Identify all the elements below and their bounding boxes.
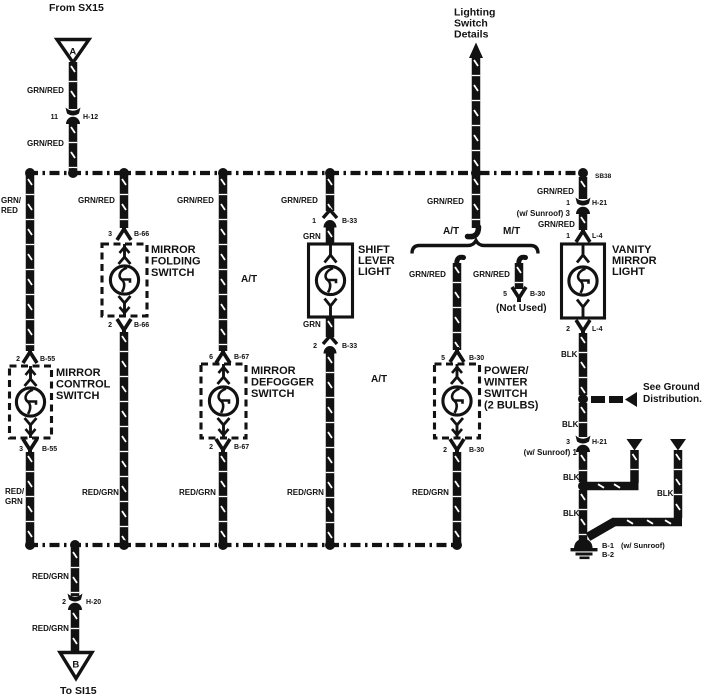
connector pin L-4 pin 2 (576, 320, 590, 335)
wire A to H-12 (69, 62, 78, 109)
label A/T label (443, 226, 459, 237)
label A/T w4 (371, 374, 387, 385)
svg-text:B-30: B-30 (469, 355, 484, 362)
label GRN/RED w6 upper (537, 187, 574, 196)
node bottom junction w1 (25, 540, 35, 550)
wire brace to power/winter switch (453, 263, 462, 350)
node bus junction w2 (119, 168, 129, 178)
svg-text:1: 1 (566, 233, 570, 240)
svg-text:RED: RED (1, 206, 18, 215)
wire bottom distribution bus (28, 543, 459, 547)
svg-text:GRN/RED: GRN/RED (27, 86, 64, 95)
switch illumination POWER/WINTER SWITCH B-30 (435, 364, 480, 438)
svg-text:B-55: B-55 (40, 356, 55, 363)
inline connector H-21 bottom (576, 436, 591, 453)
label pin 1 H-21 (566, 200, 570, 207)
svg-text:RED/GRN: RED/GRN (32, 624, 69, 633)
label pin 2 B-55 (16, 356, 20, 363)
connector pin B-67 pin 6 (216, 348, 230, 363)
svg-text:(w/ Sunroof) 3: (w/ Sunroof) 3 (517, 209, 571, 218)
label H-20 label (86, 599, 101, 606)
svg-text:RED/: RED/ (5, 487, 25, 496)
label pin 2 B-66 (108, 322, 112, 329)
label pin 11 (51, 114, 59, 121)
svg-text:(w/ Sunroof) 1: (w/ Sunroof) 1 (524, 448, 578, 457)
node bus junction A (68, 168, 78, 178)
svg-text:2: 2 (108, 322, 112, 329)
svg-text:GRN/RED: GRN/RED (537, 187, 574, 196)
label GRN/RED w5 (427, 197, 464, 206)
svg-text:Details: Details (454, 29, 489, 41)
svg-text:POWER/: POWER/ (484, 365, 529, 377)
label GRN/RED w1 (1, 196, 22, 215)
wire shift lever light to B-33 bottom (326, 317, 335, 337)
svg-text:RED/GRN: RED/GRN (82, 488, 119, 497)
label pin 2 L-4 (566, 326, 570, 333)
svg-text:SB38: SB38 (595, 173, 612, 180)
label B-1 B-2 (602, 541, 665, 559)
node bottom junction w3 (218, 540, 228, 550)
node ground distribution junction (578, 394, 588, 404)
svg-text:GRN: GRN (303, 232, 321, 241)
label pin 5 B-30 (441, 355, 445, 362)
svg-text:B-66: B-66 (134, 322, 149, 329)
svg-text:B-2: B-2 (602, 550, 614, 559)
switch illumination MIRROR FOLDING SWITCH B-66 (102, 244, 147, 316)
label RED/GRN w4 (287, 488, 324, 497)
svg-text:GRN/RED: GRN/RED (177, 196, 214, 205)
wire junction to H-21 bottom (579, 403, 588, 437)
wire bus to mirror folding switch (120, 175, 129, 228)
label GRN/RED 5a (409, 270, 446, 279)
svg-text:RED/GRN: RED/GRN (412, 488, 449, 497)
inline connector H-21 top (576, 198, 591, 215)
label RED/GRN 5a (412, 488, 449, 497)
label B-33 bottom label (342, 343, 357, 350)
node bus junction w3 (218, 168, 228, 178)
wire bus to B-33 (326, 175, 335, 211)
label pin 6 B-67 (209, 354, 213, 361)
svg-text:FOLDING: FOLDING (151, 256, 201, 268)
svg-text:1: 1 (312, 218, 316, 225)
svg-text:5: 5 (503, 291, 507, 298)
label B-30 bottom label (469, 447, 484, 454)
svg-text:2: 2 (443, 447, 447, 454)
svg-text:MIRROR: MIRROR (151, 244, 196, 256)
label M/T label (503, 226, 520, 237)
wire hook 5a top (457, 257, 464, 266)
switch illumination MIRROR DEFOGGER SWITCH B-67 (201, 364, 246, 438)
wire dashed arrow to ground distribution (591, 392, 637, 407)
svg-text:To SI15: To SI15 (60, 685, 97, 695)
svg-text:B-33: B-33 (342, 343, 357, 350)
arrow to lighting switch details (469, 43, 483, 59)
label B-33 top label (342, 218, 357, 225)
wire bus to A/T M/T brace (472, 175, 481, 228)
label BLK 4 (563, 509, 580, 518)
svg-text:6: 6 (209, 354, 213, 361)
svg-text:A/T: A/T (443, 226, 459, 237)
label pin 2 B-30 (443, 447, 447, 454)
label A/T w3 (241, 274, 257, 285)
label RED/GRN w3 (179, 488, 216, 497)
wire ground point 2 drop (674, 450, 683, 518)
node bottom junction w2 (119, 540, 129, 550)
svg-text:B-55: B-55 (42, 446, 57, 453)
label L-4 bottom label (592, 326, 603, 333)
svg-text:H-12: H-12 (83, 114, 98, 121)
label BLK 3 (563, 473, 580, 482)
label RED/GRN w1 (5, 487, 25, 506)
label GRN/RED w2 (78, 196, 115, 205)
inline connector B-33 top (323, 210, 337, 228)
svg-text:H-21: H-21 (592, 439, 607, 446)
wire junction to ground (579, 490, 588, 540)
label B-55 top (40, 356, 55, 363)
svg-text:H-21: H-21 (592, 200, 607, 207)
wire hook 5b top (519, 257, 526, 266)
svg-text:GRN/RED: GRN/RED (78, 196, 115, 205)
svg-text:2: 2 (313, 343, 317, 350)
svg-text:B-30: B-30 (530, 291, 545, 298)
svg-text:SWITCH: SWITCH (151, 267, 194, 279)
label pin 3 B-55 (19, 446, 23, 453)
label BLK 2 (562, 420, 579, 429)
label To SI15 (60, 685, 97, 695)
node bottom junction w4 (325, 540, 335, 550)
wire H-21 to branch junction (579, 451, 588, 482)
svg-text:11: 11 (51, 114, 59, 121)
label pin 1 B-33 (312, 218, 316, 225)
label B-30 top label (469, 355, 484, 362)
svg-text:GRN/RED: GRN/RED (281, 196, 318, 205)
svg-text:BLK: BLK (657, 489, 674, 498)
label From SX15 (49, 2, 104, 14)
wire bus to H-20 (71, 548, 80, 596)
svg-text:2: 2 (16, 356, 20, 363)
connector pin L-4 pin 1 (576, 227, 590, 242)
label pin 3 H-21 (566, 439, 570, 446)
label GRN w4 lower (303, 320, 321, 329)
node bus junction w4 (325, 168, 335, 178)
svg-text:5: 5 (441, 355, 445, 362)
svg-text:3: 3 (108, 231, 112, 238)
wire power/winter switch to bottom bus (453, 452, 462, 546)
label (Not Used) (496, 303, 547, 314)
label GRN/RED w6 lower (538, 220, 575, 229)
connector triangle B (60, 653, 92, 679)
label SHIFT LEVER LIGHT (358, 244, 395, 278)
svg-text:GRN/RED: GRN/RED (427, 197, 464, 206)
svg-text:B-30: B-30 (469, 447, 484, 454)
svg-text:LIGHT: LIGHT (612, 266, 645, 278)
label BLK 1 (561, 350, 578, 359)
wire brace to B-30 pin 5 (not used) (515, 263, 524, 289)
svg-text:2: 2 (209, 444, 213, 451)
node bus junction w1 (25, 168, 35, 178)
label H-21 top label (592, 200, 607, 207)
svg-text:B-67: B-67 (234, 354, 249, 361)
label B-67 top (234, 354, 249, 361)
label GRN/RED 5b (473, 270, 510, 279)
svg-text:1: 1 (566, 200, 570, 207)
label L-4 top label (592, 233, 603, 240)
node branch junction (578, 481, 588, 491)
svg-text:B-33: B-33 (342, 218, 357, 225)
brace A/T M/T split (412, 241, 538, 254)
connector pin B-55 pin 3 (23, 439, 37, 454)
svg-text:B-66: B-66 (134, 231, 149, 238)
connector pin B-55 pin 2 (23, 348, 37, 363)
connector pin B-67 pin 2 (216, 439, 230, 454)
wire bus to mirror defogger switch (219, 175, 228, 351)
wire branch to ground point 1 (585, 482, 639, 491)
svg-text:MIRROR: MIRROR (56, 367, 101, 379)
svg-text:GRN/RED: GRN/RED (473, 270, 510, 279)
label pin 2 B-67 (209, 444, 213, 451)
svg-text:3: 3 (19, 446, 23, 453)
label GRN w4 upper (303, 232, 321, 241)
ground point arrow 2 (670, 439, 686, 451)
connector pin B-66 pin 3 (117, 225, 131, 240)
label VANITY MIRROR LIGHT (612, 244, 657, 278)
node bus junction w5 (471, 168, 481, 178)
label (w/ Sunroof) 1 (524, 448, 578, 457)
label B-55 bottom (42, 446, 57, 453)
svg-text:SWITCH: SWITCH (484, 388, 527, 400)
lamp VANITY MIRROR LIGHT L-4 (562, 244, 605, 318)
svg-text:A/T: A/T (241, 274, 257, 285)
svg-text:BLK: BLK (563, 473, 580, 482)
label MIRROR CONTROL SWITCH (56, 367, 111, 402)
label GRN/RED A lower (27, 139, 64, 148)
label RED/GRN w2 (82, 488, 119, 497)
svg-text:DEFOGGER: DEFOGGER (251, 377, 314, 389)
svg-text:GRN: GRN (5, 497, 23, 506)
wire top distribution bus (28, 171, 585, 175)
svg-text:GRN/RED: GRN/RED (27, 139, 64, 148)
inline connector H-20 (68, 594, 83, 611)
svg-text:2: 2 (62, 599, 66, 606)
svg-text:WINTER: WINTER (484, 377, 527, 389)
svg-text:(w/ Sunroof): (w/ Sunroof) (621, 541, 665, 550)
wire bus to mirror control switch (26, 175, 35, 351)
label RED/GRN B upper (32, 572, 69, 581)
svg-text:A: A (69, 47, 76, 58)
label RED/GRN B lower (32, 624, 69, 633)
lamp SHIFT LEVER LIGHT B-33 (309, 244, 353, 317)
svg-text:RED/GRN: RED/GRN (287, 488, 324, 497)
svg-text:From SX15: From SX15 (49, 2, 104, 14)
wire mirror defogger switch to bottom bus (219, 452, 228, 546)
svg-text:M/T: M/T (503, 226, 520, 237)
svg-text:BLK: BLK (563, 509, 580, 518)
ground point arrow 1 (627, 439, 643, 451)
wire H-21 to L-4 (579, 213, 588, 230)
wire bus to H-21 (579, 177, 588, 199)
svg-text:SWITCH: SWITCH (56, 390, 99, 402)
svg-text:B-67: B-67 (234, 444, 249, 451)
svg-text:See Ground: See Ground (643, 382, 700, 393)
wire mirror folding switch to bottom bus (120, 332, 129, 546)
label GRN/RED w3 (177, 196, 214, 205)
svg-text:GRN/: GRN/ (1, 196, 22, 205)
wire B-33 to bottom bus (326, 353, 335, 546)
svg-text:A/T: A/T (371, 374, 387, 385)
node bottom junction B (70, 540, 80, 550)
label B-66 bottom (134, 322, 149, 329)
svg-text:L-4: L-4 (592, 326, 603, 333)
svg-text:GRN: GRN (303, 320, 321, 329)
label H-12 (83, 114, 98, 121)
label Lighting Switch Details (454, 7, 495, 41)
label POWER/WINTER SWITCH (2 BULBS) (484, 365, 539, 412)
label B-66 top (134, 231, 149, 238)
wire hook w5 bottom (468, 227, 479, 237)
switch illumination MIRROR CONTROL SWITCH B-55 (10, 366, 52, 438)
svg-text:H-20: H-20 (86, 599, 101, 606)
svg-text:L-4: L-4 (592, 233, 603, 240)
svg-text:SWITCH: SWITCH (251, 388, 294, 400)
label MIRROR FOLDING SWITCH (151, 244, 201, 279)
connector pin B-30 pin 2 (450, 439, 464, 454)
svg-text:BLK: BLK (561, 350, 578, 359)
wire ground point 2 run (612, 518, 682, 527)
svg-text:GRN/RED: GRN/RED (538, 220, 575, 229)
label GRN/RED w4 (281, 196, 318, 205)
label (w/ Sunroof) 3 (517, 209, 571, 218)
inline connector B-33 bottom (323, 336, 337, 354)
label B-30 stub label (530, 291, 545, 298)
label pin 2 B-33 (313, 343, 317, 350)
wire L-4 to ground junction (579, 333, 588, 395)
ground B-1/B-2 (571, 539, 598, 559)
svg-text:B-1: B-1 (602, 541, 614, 550)
wire H-20 to B (71, 609, 80, 652)
label B-67 bottom (234, 444, 249, 451)
label pin 5 B-30 stub (503, 291, 507, 298)
label pin 3 B-66 (108, 231, 112, 238)
node bus junction SB38 (578, 168, 588, 178)
svg-text:MIRROR: MIRROR (251, 365, 296, 377)
label BLK branch (657, 489, 674, 498)
wire B-33 to shift lever light (326, 227, 335, 244)
wire lighting details to bus (472, 56, 481, 171)
svg-text:(2 BULBS): (2 BULBS) (484, 400, 539, 412)
node bottom junction 5a (452, 540, 462, 550)
svg-text:GRN/RED: GRN/RED (409, 270, 446, 279)
label See Ground Distribution (643, 382, 702, 405)
label pin 1 L-4 (566, 233, 570, 240)
label GRN/RED A upper (27, 86, 64, 95)
label H-21 bottom label (592, 439, 607, 446)
inline connector H-12 (66, 108, 81, 125)
label SB38 (595, 173, 612, 180)
wire diagonal to ground (588, 522, 614, 537)
svg-text:RED/GRN: RED/GRN (179, 488, 216, 497)
svg-text:2: 2 (566, 326, 570, 333)
connector pin B-30 stub pin (512, 287, 526, 302)
svg-text:Distribution.: Distribution. (643, 394, 702, 405)
connector triangle A (57, 40, 89, 63)
label pin 2 H-20 (62, 599, 66, 606)
connector pin B-30 pin 5 (450, 347, 464, 362)
svg-text:BLK: BLK (562, 420, 579, 429)
svg-text:3: 3 (566, 439, 570, 446)
wire mirror control switch to bottom bus (26, 452, 35, 546)
wire riser to ground point 1 (630, 450, 639, 483)
svg-text:(Not Used): (Not Used) (496, 303, 547, 314)
svg-text:RED/GRN: RED/GRN (32, 572, 69, 581)
svg-text:CONTROL: CONTROL (56, 379, 111, 391)
label MIRROR DEFOGGER SWITCH (251, 365, 314, 400)
svg-text:B: B (72, 660, 79, 671)
svg-text:LIGHT: LIGHT (358, 266, 391, 278)
wire H-12 to bus (69, 123, 78, 171)
connector pin B-66 pin 2 (117, 319, 131, 334)
